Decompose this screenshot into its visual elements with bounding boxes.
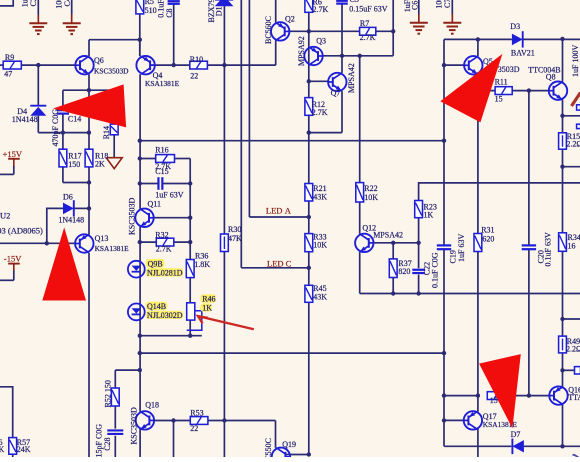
svg-text:Q14B: Q14B — [147, 302, 166, 311]
svg-text:D3: D3 — [510, 22, 520, 31]
svg-text:Q7: Q7 — [331, 89, 341, 98]
svg-text:BAV21: BAV21 — [511, 48, 535, 57]
svg-text:1.8K: 1.8K — [194, 260, 210, 269]
svg-text:D1: D1 — [215, 7, 224, 17]
svg-text:R10: R10 — [190, 55, 203, 64]
svg-text:TTC004B: TTC004B — [528, 66, 560, 75]
svg-text:2K: 2K — [95, 160, 105, 169]
svg-text:A: A — [285, 206, 292, 216]
svg-text:R9: R9 — [5, 53, 14, 62]
svg-text:2.7K: 2.7K — [156, 245, 172, 254]
svg-text:R52 150: R52 150 — [103, 380, 112, 407]
svg-text:2.7K: 2.7K — [312, 108, 328, 117]
svg-text:Q9B: Q9B — [148, 259, 163, 268]
svg-text:R46: R46 — [202, 295, 215, 304]
svg-text:47K: 47K — [228, 234, 242, 243]
svg-text:R11: R11 — [495, 78, 508, 87]
svg-text:KSC3503D: KSC3503D — [130, 407, 139, 445]
svg-text:BC550C: BC550C — [264, 438, 273, 457]
svg-text:R14: R14 — [102, 126, 111, 139]
svg-text:C28: C28 — [103, 437, 112, 450]
svg-text:NJL0281D: NJL0281D — [147, 268, 183, 277]
svg-text:Q13: Q13 — [95, 234, 109, 243]
svg-text:KSA1381E: KSA1381E — [95, 244, 130, 253]
svg-text:1K: 1K — [424, 211, 434, 220]
svg-text:C2: C2 — [29, 0, 38, 7]
svg-text:503 (AD8065): 503 (AD8065) — [0, 225, 43, 235]
svg-text:620: 620 — [482, 234, 494, 243]
svg-text:R30: R30 — [228, 225, 241, 234]
svg-text:2.2Ω: 2.2Ω — [566, 140, 580, 149]
svg-text:KSC3503D: KSC3503D — [128, 197, 137, 235]
svg-text:1uF 63V: 1uF 63V — [155, 190, 183, 199]
svg-text:MPSA42: MPSA42 — [347, 63, 356, 93]
svg-text:24K: 24K — [17, 445, 31, 454]
svg-text:Q2: Q2 — [285, 14, 295, 23]
svg-text:1uF 63V: 1uF 63V — [457, 234, 466, 262]
svg-text:R7: R7 — [360, 19, 369, 28]
svg-text:470pF C0G: 470pF C0G — [51, 109, 60, 147]
svg-text:MPSA42: MPSA42 — [373, 230, 403, 239]
svg-text:3503D: 3503D — [498, 65, 520, 74]
svg-text:C14: C14 — [68, 115, 81, 124]
svg-text:Q19: Q19 — [282, 440, 296, 449]
svg-text:+15V: +15V — [3, 149, 23, 159]
svg-text:0.1uF C0G: 0.1uF C0G — [431, 252, 440, 288]
svg-text:22: 22 — [190, 71, 198, 80]
svg-text:D6: D6 — [63, 193, 73, 202]
svg-text:16: 16 — [568, 242, 576, 251]
svg-text:D7: D7 — [511, 430, 521, 439]
svg-text:-15V: -15V — [4, 254, 22, 264]
svg-text:C: C — [286, 259, 292, 269]
svg-text:2.2Ω: 2.2Ω — [566, 344, 580, 353]
svg-text:15: 15 — [495, 95, 503, 104]
svg-text:43K: 43K — [313, 192, 327, 201]
svg-text:U2: U2 — [0, 211, 10, 221]
svg-text:10K: 10K — [364, 193, 378, 202]
svg-text:22: 22 — [190, 424, 198, 433]
svg-text:0.15uF 63V: 0.15uF 63V — [349, 4, 387, 13]
svg-text:R32: R32 — [155, 231, 168, 240]
svg-text:C4: C4 — [63, 0, 72, 7]
svg-text:1uF 100V: 1uF 100V — [571, 45, 580, 77]
svg-text:43K: 43K — [313, 292, 327, 301]
svg-text:Q18: Q18 — [145, 401, 159, 410]
svg-text:Q3: Q3 — [316, 37, 326, 46]
svg-text:1N4148: 1N4148 — [58, 216, 84, 225]
svg-text:MPSA92: MPSA92 — [297, 36, 306, 66]
svg-text:150: 150 — [68, 160, 80, 169]
svg-text:C6: C6 — [411, 1, 420, 10]
svg-text:NJL0302D: NJL0302D — [147, 311, 183, 320]
svg-text:0.1uF 63V: 0.1uF 63V — [543, 232, 552, 266]
svg-text:TTA004B: TTA004B — [568, 393, 580, 402]
svg-text:1N4148: 1N4148 — [12, 115, 38, 124]
svg-text:K: K — [0, 445, 5, 454]
svg-text:C8: C8 — [165, 8, 174, 17]
svg-text:BC560C: BC560C — [264, 16, 273, 44]
svg-text:R53: R53 — [190, 408, 203, 417]
svg-text:510: 510 — [145, 6, 157, 15]
svg-text:1K: 1K — [202, 304, 212, 313]
svg-text:C7: C7 — [443, 0, 452, 8]
svg-text:C15: C15 — [155, 167, 168, 176]
svg-text:Q8: Q8 — [546, 73, 556, 82]
svg-text:47: 47 — [4, 70, 12, 79]
svg-text:Q6: Q6 — [94, 56, 104, 65]
svg-text:LED: LED — [267, 259, 284, 269]
svg-text:R31: R31 — [481, 225, 494, 234]
svg-text:820: 820 — [398, 267, 410, 276]
svg-text:10K: 10K — [313, 241, 327, 250]
svg-text:KSC3503D: KSC3503D — [94, 67, 129, 76]
svg-text:2.7K: 2.7K — [360, 33, 376, 42]
svg-text:LED: LED — [266, 206, 283, 216]
svg-text:KSA1381E: KSA1381E — [145, 79, 180, 88]
svg-text:2.7K: 2.7K — [313, 5, 329, 14]
svg-text:R16: R16 — [155, 145, 168, 154]
svg-text:Q11: Q11 — [148, 200, 161, 209]
